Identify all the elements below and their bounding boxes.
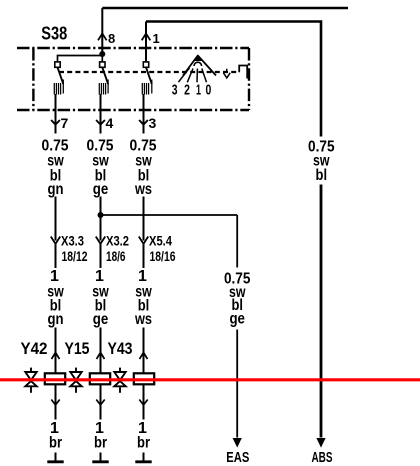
wire top feed from pin 8 xyxy=(102,7,348,10)
switch contact 2 blade xyxy=(102,67,108,84)
ground column 2 xyxy=(92,453,108,462)
wire EAS branch vertical xyxy=(236,215,238,268)
wire label 0.75 sw bl ge column 2 xyxy=(87,138,114,199)
valve Y42 outlet arrow xyxy=(51,400,59,406)
wire from junction to contact 1 pivot xyxy=(58,56,103,63)
pin 3 arrow xyxy=(139,120,148,125)
wire riser pin 1 xyxy=(145,22,147,62)
valve Y42 pneumatic symbol xyxy=(25,368,36,393)
switch contact 1 brush xyxy=(54,80,63,95)
svg-text:ABS: ABS xyxy=(312,449,333,466)
svg-text:X3.3: X3.3 xyxy=(61,233,84,249)
svg-text:ge: ge xyxy=(93,181,109,198)
switch contact 3 brush xyxy=(142,80,152,95)
switch coupling dashed line xyxy=(59,71,239,73)
svg-text:gn: gn xyxy=(48,181,64,198)
connector X5.4 label xyxy=(149,233,176,265)
ABS arrowhead xyxy=(316,438,325,448)
svg-text:3: 3 xyxy=(172,82,178,99)
svg-text:ge: ge xyxy=(229,311,245,328)
svg-text:7: 7 xyxy=(61,115,69,131)
svg-text:br: br xyxy=(137,435,150,452)
rotary indicator position rays xyxy=(179,68,207,82)
valve Y43 inlet arrow xyxy=(140,353,148,360)
pin 8 arrow xyxy=(98,34,107,41)
valve Y42 inlet arrow xyxy=(52,353,60,360)
switch contact 2 brush xyxy=(99,80,108,95)
rotary indicator detent arc xyxy=(194,62,202,66)
EAS arrowhead xyxy=(233,438,242,448)
svg-text:X3.2: X3.2 xyxy=(106,233,129,249)
pin 4 arrow xyxy=(96,120,105,125)
svg-text:2: 2 xyxy=(184,82,190,99)
wire top feed from pin 1 to ABS riser xyxy=(146,22,321,137)
node junction dot on pin 8 riser xyxy=(99,51,105,57)
wire ABS branch lower xyxy=(320,185,323,438)
valve Y43 outlet arrow xyxy=(139,400,147,406)
wire EAS branch horizontal xyxy=(101,214,238,216)
rotary indicator right slope xyxy=(198,56,216,76)
pin 1 arrow xyxy=(142,34,151,41)
wire column 3 valve outlet xyxy=(143,385,145,420)
wire column 3 below connector xyxy=(143,244,145,268)
wire EAS branch lower xyxy=(236,330,238,438)
svg-text:18/6: 18/6 xyxy=(106,248,126,264)
wire label 1 br column 2 xyxy=(94,420,107,452)
wire switch 3 output through box xyxy=(143,94,145,134)
wire label 0.75 sw bl gn column 1 xyxy=(42,138,69,199)
wire junction to contact 2 pivot xyxy=(101,54,103,62)
svg-text:4: 4 xyxy=(106,115,114,131)
svg-text:S38: S38 xyxy=(41,22,67,43)
connector X5.4 arrow xyxy=(139,237,148,244)
svg-text:8: 8 xyxy=(108,31,115,46)
svg-text:18/16: 18/16 xyxy=(150,248,176,264)
ground column 1 xyxy=(47,453,63,462)
valve Y43 pneumatic symbol xyxy=(114,368,125,393)
wire riser pin 8 xyxy=(101,8,103,53)
svg-text:ws: ws xyxy=(134,181,152,198)
valve Y15 outlet arrow xyxy=(96,400,104,406)
wire column 2 valve outlet xyxy=(100,385,102,420)
switch S38 enclosure dash-dot box xyxy=(17,48,249,110)
rotary direction arrow xyxy=(223,69,230,78)
wire column 3 into valve xyxy=(143,328,145,373)
wire label 1 sw bl ge column 2 xyxy=(92,268,109,328)
svg-text:1: 1 xyxy=(138,268,147,285)
wire label 1 sw bl ws column 3 xyxy=(134,268,152,328)
wire label 1 br column 1 xyxy=(49,420,62,452)
node junction dot EAS branch xyxy=(98,212,104,218)
svg-text:Y43: Y43 xyxy=(108,339,133,358)
switch contact 3 blade xyxy=(146,67,152,84)
svg-text:1: 1 xyxy=(50,268,59,285)
switch contact 2 pivot square xyxy=(100,62,105,67)
valve Y43 coil xyxy=(134,373,154,384)
svg-text:1: 1 xyxy=(95,268,104,285)
wire column 1 below connector xyxy=(55,244,57,268)
pin 7 arrow xyxy=(51,120,60,125)
svg-text:bl: bl xyxy=(316,167,328,184)
svg-text:Y15: Y15 xyxy=(65,339,90,358)
svg-text:br: br xyxy=(49,435,62,452)
valve Y15 coil xyxy=(90,373,110,384)
wire switch 2 output through box xyxy=(100,94,102,134)
svg-text:ge: ge xyxy=(93,311,109,328)
wire switch 1 output through box xyxy=(55,94,57,134)
svg-text:1: 1 xyxy=(196,82,201,99)
wire column 2 to connector xyxy=(100,197,102,241)
svg-text:br: br xyxy=(94,435,107,452)
svg-text:1: 1 xyxy=(153,31,160,46)
valve Y15 inlet arrow xyxy=(97,353,105,360)
switch contact 3 pivot square xyxy=(143,62,148,67)
svg-text:3: 3 xyxy=(149,115,157,131)
wire column 1 valve outlet xyxy=(55,385,57,420)
svg-text:X5.4: X5.4 xyxy=(149,233,172,249)
svg-text:0: 0 xyxy=(206,82,212,99)
valve Y15 pneumatic symbol xyxy=(70,368,81,393)
wire column 2 below connector xyxy=(100,244,102,268)
wire label 0.75 sw bl ws column 3 xyxy=(130,138,157,199)
connector X3.3 label xyxy=(61,233,88,265)
wire column 1 to connector xyxy=(55,197,57,241)
connector X3.2 arrow xyxy=(96,237,105,244)
rotary position labels 3 2 1 0 xyxy=(172,82,212,99)
wire label 0.75 sw bl ABS branch xyxy=(308,139,335,185)
connector X3.3 arrow xyxy=(51,237,60,244)
ground column 3 xyxy=(135,453,151,462)
svg-text:gn: gn xyxy=(48,311,64,328)
svg-text:EAS: EAS xyxy=(226,449,249,466)
rotary indicator left slope xyxy=(183,56,198,76)
svg-text:Y42: Y42 xyxy=(21,339,48,358)
svg-text:18/12: 18/12 xyxy=(62,248,88,264)
svg-text:ws: ws xyxy=(134,311,152,328)
rotary position indicator pointer xyxy=(194,54,202,61)
wire column 2 into valve xyxy=(100,328,102,373)
valve Y42 coil xyxy=(45,373,65,384)
wire label 1 sw bl gn column 1 xyxy=(47,268,64,328)
switch contact 1 pivot square xyxy=(55,62,60,67)
red divider line xyxy=(0,378,420,381)
wire label 0.75 sw bl ge EAS branch xyxy=(224,271,251,328)
wire column 3 to connector xyxy=(143,197,145,241)
wire column 1 into valve xyxy=(55,328,57,373)
switch contact 1 blade xyxy=(58,67,64,84)
rotary latch symbol xyxy=(239,66,247,79)
connector X3.2 label xyxy=(106,233,129,265)
wire label 1 br column 3 xyxy=(137,420,150,452)
